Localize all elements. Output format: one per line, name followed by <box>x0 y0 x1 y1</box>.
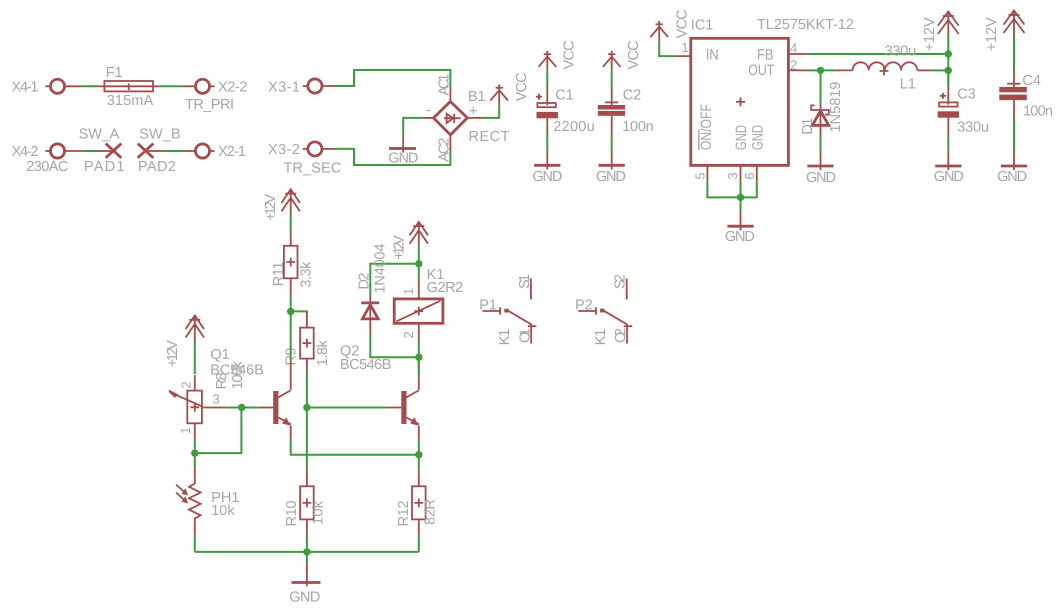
pin stub AC1 <box>449 87 451 100</box>
pin stub C3 top <box>947 87 949 105</box>
wire junction to R12 <box>418 455 420 470</box>
wire junction to Q2 collector <box>418 357 420 374</box>
wire C1 to GND <box>546 134 548 152</box>
pin stub X3-2 <box>322 148 335 150</box>
pin stub C4 top <box>1013 69 1015 87</box>
ground (rail) <box>292 563 321 586</box>
svg-text:F1: F1 <box>106 65 123 81</box>
svg-text:R11: R11 <box>271 261 287 286</box>
svg-text:VCC: VCC <box>562 40 578 69</box>
wire wiper to Q1 base <box>227 407 259 409</box>
wire +12V to K1 junction <box>418 247 420 264</box>
svg-text:X2-1: X2-1 <box>218 144 246 160</box>
connector pad X4-2 <box>50 144 64 158</box>
svg-text:+12V: +12V <box>165 340 181 367</box>
wire R9 to base rail <box>306 372 308 469</box>
junction PH1 top <box>191 449 198 456</box>
svg-text:X2-2: X2-2 <box>218 79 248 95</box>
svg-text:C2: C2 <box>623 88 642 104</box>
connector pad X2-2 <box>195 79 209 93</box>
svg-text:100n: 100n <box>622 119 654 135</box>
wire R8 to PH1 junction <box>194 440 196 453</box>
pin stub C4 bottom <box>1013 100 1015 117</box>
svg-text:R12: R12 <box>396 500 412 526</box>
wire X4-2 to SW_A <box>65 150 81 152</box>
capacitor C1 <box>537 103 558 118</box>
svg-text:GND: GND <box>750 125 767 150</box>
svg-text:1N5819: 1N5819 <box>828 82 844 133</box>
wire C3 to GND <box>947 135 949 152</box>
pin stub K1 pin 2 <box>418 323 420 341</box>
wire D2 to K1 bottom junction <box>370 335 419 357</box>
svg-text:GND: GND <box>596 169 626 185</box>
wire B1 to VCC <box>483 104 499 118</box>
pin stub R11 top <box>290 232 292 246</box>
svg-text:TR_PRI: TR_PRI <box>185 97 234 113</box>
svg-text:2: 2 <box>179 381 194 388</box>
ground (B1) <box>389 135 416 153</box>
wire junction to D2 <box>370 264 419 296</box>
svg-text:VCC: VCC <box>675 9 691 38</box>
origin cross C4 <box>1007 83 1020 85</box>
junction D1 node <box>817 67 824 74</box>
wire X3-2 to AC2 <box>335 149 451 165</box>
pin stub SW_A left <box>97 150 111 152</box>
svg-text:S2: S2 <box>613 274 629 289</box>
svg-text:GND: GND <box>806 170 836 186</box>
svg-text:-: - <box>426 103 431 119</box>
svg-text:P1: P1 <box>479 298 497 314</box>
supply +12V (C3) <box>938 12 959 36</box>
svg-text:GND: GND <box>532 169 562 185</box>
ground (C2) <box>599 151 625 170</box>
origin cross IC1 <box>736 97 745 106</box>
diode D2 1N4004 <box>361 296 379 336</box>
supply +12V (R8) <box>186 316 204 342</box>
svg-text:L1: L1 <box>900 76 916 92</box>
pin stub AC2 <box>449 135 451 150</box>
ground (C4) <box>1001 152 1027 170</box>
junction base divider <box>238 404 245 411</box>
pin stub C2 top <box>611 87 613 105</box>
svg-text:G2R2: G2R2 <box>427 280 464 296</box>
junction Q2 base <box>303 404 310 411</box>
supply VCC (C1) <box>539 51 557 71</box>
pin stub R12 bottom <box>418 519 420 535</box>
pin stub C2 bottom <box>611 116 613 135</box>
capacitor C3 <box>938 102 959 117</box>
svg-text:10k: 10k <box>211 503 235 519</box>
svg-text:PAD2: PAD2 <box>138 159 176 175</box>
wire pin 4 to +12V node <box>806 53 949 55</box>
svg-text:RECT: RECT <box>469 129 510 145</box>
pin stub C3 bottom <box>947 118 949 135</box>
svg-text:+12V: +12V <box>391 235 407 260</box>
svg-text:AC2: AC2 <box>437 138 453 162</box>
supply VCC (B1) <box>490 84 508 104</box>
junction R11 collector <box>287 308 294 315</box>
svg-text:X4-1: X4-1 <box>12 79 39 95</box>
wire pin 2 to D1 node <box>806 69 836 71</box>
svg-text:+12V: +12V <box>263 194 279 221</box>
supply VCC (IC1) <box>650 21 668 41</box>
svg-text:B1: B1 <box>468 89 486 105</box>
pin stub L1 right <box>917 69 932 71</box>
svg-text:D2: D2 <box>356 273 372 290</box>
wire PH1 to rail <box>194 535 196 552</box>
wire junction to relay pin 1 <box>418 264 420 282</box>
pin stub R8 bottom <box>194 423 196 440</box>
supply +12V (C4) <box>1004 11 1025 35</box>
pin stub C1 top <box>546 85 548 105</box>
pin stub C1 bottom <box>546 118 548 133</box>
svg-text:GND: GND <box>934 169 964 185</box>
wire junction to R9 <box>291 310 307 313</box>
svg-text:315mA: 315mA <box>107 93 154 109</box>
wire VCC to C1 <box>546 71 548 85</box>
ground (IC1) <box>727 212 753 231</box>
pin stub IC1 pin 1 <box>675 55 691 57</box>
pin stub R8 top <box>194 375 196 390</box>
pin stub R10 top <box>306 470 308 487</box>
wire collector Q1 <box>290 311 292 360</box>
ground (C1) <box>534 151 560 170</box>
svg-text:R10: R10 <box>284 500 300 526</box>
connector pad X3-2 <box>308 142 322 156</box>
junction IC GND <box>737 194 744 201</box>
svg-text:6: 6 <box>742 172 757 179</box>
svg-text:2: 2 <box>401 331 416 338</box>
svg-text:GND: GND <box>997 169 1027 185</box>
wire X3-1 to AC1 <box>335 70 451 87</box>
svg-text:TL2575KKT-12: TL2575KKT-12 <box>757 17 854 33</box>
wire VCC to pin 1 <box>659 41 675 57</box>
ground (C3) <box>935 152 961 171</box>
pin stub R9 top <box>306 312 308 328</box>
supply +12V (R11) <box>282 189 300 215</box>
connector pad X3-1 <box>308 79 322 93</box>
svg-text:Q1: Q1 <box>210 347 229 363</box>
op-amp U1 box IC1 <box>691 38 789 165</box>
wire L1 to +12V node <box>932 70 948 86</box>
svg-text:C4: C4 <box>1022 73 1041 89</box>
pin stub R12 top <box>418 470 420 487</box>
potentiometer R8 <box>169 390 203 424</box>
wire Q2 collector <box>418 357 420 374</box>
pin stub X2-2 <box>181 85 195 87</box>
svg-text:IN: IN <box>706 46 719 63</box>
wire B1 to GND <box>403 118 424 135</box>
svg-text:VCC: VCC <box>514 72 530 101</box>
junction K1 top <box>415 260 422 267</box>
rectifier B1 <box>434 102 468 135</box>
svg-text:SW_B: SW_B <box>139 126 181 142</box>
polarity plus C1 <box>536 94 542 100</box>
photoresistor PH1 <box>176 467 201 535</box>
svg-text:R8: R8 <box>214 372 230 389</box>
svg-text:+12V: +12V <box>984 17 1000 51</box>
svg-text:TR_SEC: TR_SEC <box>284 160 342 176</box>
wire +12V node to C3 <box>947 70 949 86</box>
svg-text:330u: 330u <box>885 44 917 60</box>
svg-text:1N4004: 1N4004 <box>373 244 389 294</box>
wire pins 5 3 6 to GND <box>707 181 756 197</box>
pin stub B1 plus <box>467 117 483 119</box>
wire junction loop to base <box>195 408 242 454</box>
supply +12V (K1) <box>410 222 428 247</box>
svg-text:O1: O1 <box>517 328 533 343</box>
supply VCC (C2) <box>603 51 621 71</box>
svg-text:O2: O2 <box>613 328 629 343</box>
wire C2 to GND <box>611 135 613 151</box>
svg-text:SW_A: SW_A <box>79 126 120 142</box>
connector pad X2-1 <box>195 144 209 158</box>
svg-text:+12V: +12V <box>922 17 938 51</box>
wire R10 to rail <box>306 535 308 552</box>
pin stub IC1 pin 4 <box>788 53 805 55</box>
wire rail to GND <box>306 552 308 563</box>
svg-text:K1: K1 <box>593 329 609 346</box>
junction K1 bottom <box>415 354 422 361</box>
svg-text:X3-1: X3-1 <box>268 79 300 95</box>
svg-text:1.8k: 1.8k <box>315 339 331 366</box>
resistor R9 <box>300 328 314 359</box>
wire C4 to GND <box>1013 117 1015 152</box>
wire X4-1 to F1 <box>65 85 81 87</box>
pin stub R8 wiper <box>203 407 227 409</box>
wire F1 to X2-2 <box>160 85 181 87</box>
solder jumper SW_A <box>106 144 122 158</box>
svg-text:ON/OFF: ON/OFF <box>698 104 715 150</box>
pin stub Q2 base <box>385 407 401 409</box>
svg-text:S1: S1 <box>517 274 533 289</box>
svg-text:K1: K1 <box>497 329 513 346</box>
pin stub R9 bottom <box>306 359 308 373</box>
transistor Q2 <box>401 374 419 440</box>
wire Q2 emitter <box>418 440 420 455</box>
svg-text:4: 4 <box>790 41 797 56</box>
svg-text:330u: 330u <box>957 120 989 136</box>
resistor R11 <box>284 246 298 278</box>
wire R12 to rail <box>418 535 420 552</box>
svg-text:D1: D1 <box>800 118 816 135</box>
svg-text:C3: C3 <box>957 87 976 103</box>
relay contact K1 P1 <box>483 279 537 344</box>
wire base rail to Q2 <box>307 407 386 409</box>
svg-text:3.3k: 3.3k <box>299 261 315 288</box>
pin stub IC1 pin 3 <box>740 165 742 181</box>
pin name ON/OFF <box>698 104 715 150</box>
ground rail <box>195 551 419 553</box>
svg-text:230AC: 230AC <box>26 159 68 175</box>
pin stub IC1 pin 2 <box>788 69 805 71</box>
junction +12V top <box>945 50 952 57</box>
wire R11 to junction <box>290 295 292 311</box>
pin stub B1 minus <box>424 117 434 119</box>
wire SW_B to X2-1 <box>148 150 161 152</box>
svg-text:100k: 100k <box>230 361 246 390</box>
pin stub R11 bottom <box>290 278 292 295</box>
resistor R12 <box>412 486 426 519</box>
svg-text:GND: GND <box>733 125 750 150</box>
inductor L1 <box>853 62 918 75</box>
pin stub L1 left <box>836 69 853 71</box>
wire +12V to R11 <box>290 215 292 232</box>
svg-text:GND: GND <box>725 229 755 245</box>
svg-text:2: 2 <box>790 57 797 72</box>
svg-text:AC1: AC1 <box>437 74 453 96</box>
pin stub X3-1 <box>322 85 335 87</box>
svg-text:82R: 82R <box>423 499 439 525</box>
fuse F1 <box>104 81 153 91</box>
pin stub F1 right <box>153 85 160 87</box>
svg-text:10k: 10k <box>311 500 327 525</box>
wire relay pin 2 to junction <box>418 341 420 357</box>
transistor Q1 <box>259 360 291 439</box>
svg-text:1: 1 <box>178 427 193 434</box>
pin stub IC1 pin 5 <box>706 165 708 181</box>
junction rail GND <box>303 548 310 555</box>
relay contact K1 P2 <box>578 279 632 344</box>
svg-text:X3-2: X3-2 <box>268 142 300 158</box>
pin stub F1 left <box>97 85 104 87</box>
svg-text:3: 3 <box>725 172 740 179</box>
svg-text:GND: GND <box>289 590 320 606</box>
junction +12V bottom <box>945 67 952 74</box>
diode D1 1N5819 <box>811 70 829 152</box>
wire +12V to C4 <box>1013 35 1015 70</box>
svg-text:P2: P2 <box>575 298 593 314</box>
svg-text:100n: 100n <box>1023 104 1053 120</box>
capacitor C4 <box>999 87 1027 100</box>
relay coil K1 <box>394 299 443 323</box>
svg-text:IC1: IC1 <box>691 18 714 34</box>
svg-text:OUT: OUT <box>748 62 774 79</box>
svg-text:1: 1 <box>401 288 416 295</box>
svg-text:C1: C1 <box>555 88 574 104</box>
wire VCC to C2 <box>611 71 613 87</box>
svg-text:3: 3 <box>213 392 220 407</box>
capacitor C2 <box>598 105 625 116</box>
resistor R10 <box>300 486 314 519</box>
svg-text:PAD1: PAD1 <box>84 159 125 175</box>
pin stub R10 bottom <box>306 519 308 535</box>
svg-text:BC546B: BC546B <box>340 357 391 373</box>
svg-text:X4-2: X4-2 <box>12 144 39 160</box>
svg-text:5: 5 <box>692 172 707 179</box>
polarity plus C3 <box>940 93 946 99</box>
connector pad X4-1 <box>50 79 64 93</box>
origin cross C2 <box>605 101 618 103</box>
wire Q1 emitter down <box>291 439 419 455</box>
wire PH1 top <box>194 453 196 467</box>
svg-text:FB: FB <box>757 46 774 63</box>
wire +12V node vertical <box>947 36 949 71</box>
wire +12V to R8 <box>194 341 196 374</box>
pin stub IC1 pin 6 <box>756 165 758 181</box>
pin stub K1 pin 1 <box>418 281 420 299</box>
svg-text:1: 1 <box>681 40 688 55</box>
svg-text:2200u: 2200u <box>553 119 594 135</box>
svg-text:VCC: VCC <box>626 40 642 69</box>
ground (D1) <box>807 152 833 170</box>
solder jumper SW_B <box>138 144 154 158</box>
junction R12 top <box>415 451 422 458</box>
